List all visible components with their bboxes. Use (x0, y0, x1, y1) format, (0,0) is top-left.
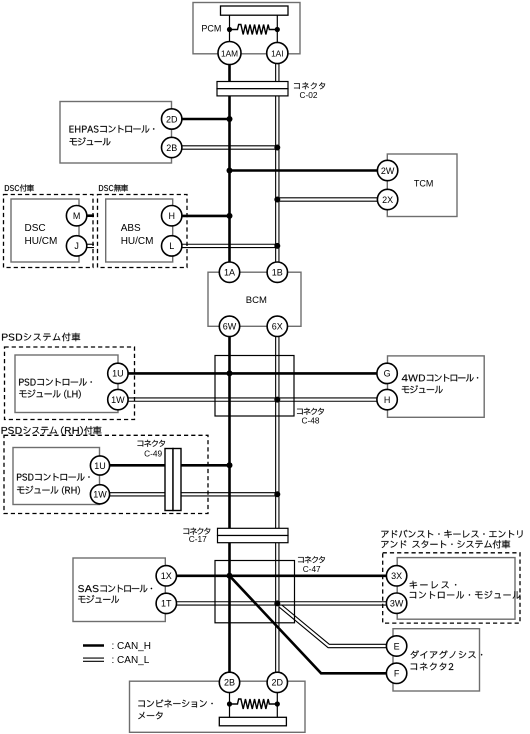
label keyless option header line2 (381, 540, 510, 549)
svg-text:1W: 1W (93, 490, 107, 500)
svg-text:6W: 6W (223, 322, 237, 332)
dashed box PSD system option (5, 347, 135, 420)
wire meter 2D stub to bar (276, 693, 278, 718)
svg-text:1A: 1A (224, 268, 235, 278)
dashed box DSC-less option (98, 195, 188, 268)
wire CAN_L bus upper segment (1AI to 1B) (inner) (276, 64, 278, 262)
wire CAN_L diagonal branch to diagnosis E (outer) (277, 603, 386, 646)
connector C-48 box (215, 356, 294, 417)
wire CAN_L branch PSD(RH) 1W (outer) (110, 492, 278, 496)
svg-text:1U: 1U (94, 461, 106, 471)
module EHPAS control module box (60, 102, 172, 164)
wire CAN_H legend sample (83, 644, 104, 647)
module TCM box (387, 154, 457, 217)
junction EHPAS 2D / CAN_H (227, 116, 233, 122)
module combination meter box (130, 681, 306, 732)
pin 6W (BCM CAN_H out) (219, 316, 239, 336)
svg-text:G: G (384, 369, 391, 379)
wire CAN_L bus lower segment (6X to 2D) (outer) (275, 337, 279, 673)
wire CAN_L branch ABS L (outer) (182, 244, 277, 248)
pin J (DSC HU/CM CAN_L) (66, 236, 86, 256)
svg-text:2X: 2X (382, 195, 393, 205)
module keyless control module box (397, 558, 515, 620)
svg-text:PCM: PCM (201, 24, 221, 34)
svg-text:BCM: BCM (246, 295, 267, 306)
pin 2D (meter CAN_L) (267, 672, 287, 692)
junction PSD(RH) 1W / CAN_L (274, 491, 280, 497)
label PSD LH line2 (19, 390, 80, 399)
wire CAN_L diagonal branch to diagnosis E (inner) (277, 603, 386, 646)
svg-text:: CAN_L: : CAN_L (112, 655, 150, 666)
wire CAN_H branch PSD(LH) 1U to 4WD G (128, 372, 377, 375)
pin H (4WD CAN_L) (377, 389, 397, 409)
module SAS control module box (73, 558, 165, 622)
wire CAN_L branch PSD(RH) 1W (inner) (110, 493, 278, 495)
label connector C-17 (katakana) (183, 528, 210, 535)
connector C-02 bar lower (217, 89, 288, 96)
pin 1AI (PCM CAN_L) (267, 42, 288, 63)
connector C-47 box (215, 561, 295, 623)
module 4WD control module box (388, 356, 485, 417)
svg-text:1T: 1T (161, 599, 172, 609)
pin 3W (keyless CAN_L) (386, 593, 406, 613)
svg-text:ABS: ABS (121, 223, 141, 234)
label PSD RH line1 (17, 473, 90, 481)
wire CAN_L branch TCM 2X (outer) (277, 197, 377, 201)
svg-text:1X: 1X (161, 571, 172, 581)
pin 1A (BCM CAN_H in) (219, 262, 239, 282)
connector C-02 bar upper (217, 82, 288, 89)
svg-text:J: J (74, 241, 79, 251)
junction PSD(RH) 1U / CAN_H (227, 462, 233, 468)
module ABS HU/CM box (106, 199, 173, 262)
junction PSD(LH) 1W / CAN_L (274, 397, 280, 403)
pin H (ABS HU/CM CAN_H) (162, 206, 182, 226)
connector C-17 bar lower (218, 536, 289, 543)
svg-text:H: H (168, 211, 175, 221)
resistor terminating (combination meter 120 ohm) (230, 699, 278, 709)
pin 2B (EHPAS CAN_L) (162, 137, 182, 157)
wire meter 2B stub to bar (229, 693, 231, 718)
pin 2X (TCM CAN_L) (377, 189, 397, 209)
junction EHPAS 2B / CAN_L (274, 145, 280, 151)
wire CAN_L branch ABS L (inner) (182, 245, 277, 247)
junction PCM resistor left (227, 27, 232, 32)
label PSD RH line2 (17, 486, 80, 495)
pin E (diagnosis CAN_L) (386, 636, 406, 656)
label combination meter line2 (138, 712, 162, 720)
junction PSD(LH) 1U / CAN_H (227, 370, 233, 376)
svg-text:L: L (169, 241, 174, 251)
wire CAN_L branch EHPAS 2B (outer) (182, 145, 277, 149)
label keyless module line1 (410, 581, 457, 589)
svg-text:C-47: C-47 (303, 564, 321, 574)
label SAS control module line1 (78, 585, 152, 593)
pin 1W (PSD RH CAN_L) (90, 485, 109, 504)
label connector C-48 (katakana) (297, 408, 324, 415)
module PSD control module (RH) box (13, 448, 100, 505)
junction TCM 2X / CAN_L (274, 197, 280, 203)
pin 1U (PSD LH CAN_H) (108, 363, 128, 383)
pin L (ABS HU/CM CAN_L) (162, 236, 182, 256)
svg-text:2D: 2D (272, 678, 284, 688)
svg-text:3W: 3W (390, 599, 404, 609)
pin 1W (PSD LH CAN_L) (108, 389, 128, 409)
module PSD control module (LH) box (15, 355, 118, 413)
wire CAN_L branch ABS J stub (outer) (87, 244, 94, 248)
svg-text:1U: 1U (112, 369, 124, 379)
wire PCM bar to resistor left stub (229, 15, 231, 41)
junction meter resistor left (227, 701, 232, 706)
label PSD system RH header (2, 426, 102, 435)
pin 2B (meter CAN_H) (219, 672, 239, 692)
PCM internal bus bar (221, 6, 289, 15)
label 4WD control module line1 (402, 374, 478, 382)
connector C-49 bar right (173, 449, 181, 511)
dashed box PSD system (RH) option (4, 435, 208, 513)
module diagnosis connector 2 box (393, 629, 480, 691)
svg-text:DSC: DSC (25, 223, 46, 234)
label connector C-47 (katakana) (298, 556, 325, 563)
svg-text:C-02: C-02 (300, 90, 318, 100)
dashed box DSC-equipped option (4, 195, 94, 268)
label 4WD control module line2 (402, 385, 443, 393)
pin 1T (SAS CAN_L) (156, 593, 176, 613)
svg-text:HU/CM: HU/CM (25, 236, 58, 247)
pin M (DSC HU/CM CAN_H) (66, 206, 86, 226)
resistor terminating (PCM 120 ohm) (230, 25, 278, 35)
junction meter resistor right (275, 701, 280, 706)
label diagnosis connector line1 (411, 650, 483, 658)
pin G (4WD CAN_H) (377, 363, 397, 383)
label EHPAS control module line1 (70, 125, 155, 133)
svg-text:6X: 6X (272, 322, 283, 332)
svg-text:1B: 1B (272, 268, 283, 278)
junction PCM resistor right (275, 27, 280, 32)
svg-text:1AI: 1AI (271, 48, 283, 58)
pin 2W (TCM CAN_H) (377, 160, 397, 180)
wire CAN_L branch EHPAS 2B (inner) (182, 146, 277, 148)
svg-text:2D: 2D (166, 114, 178, 124)
wire PCM bar to resistor right stub (276, 15, 278, 42)
svg-text:: CAN_H: : CAN_H (112, 641, 151, 652)
wire CAN_L legend sample (inner) (83, 659, 104, 661)
label PSD system header (2, 333, 80, 342)
wire CAN_H branch ABS H (182, 215, 230, 218)
label combination meter line1 (138, 700, 212, 708)
label connector C-49 (katakana) (138, 440, 166, 447)
wire CAN_L branch SAS 1T to keyless 3W (outer) (177, 601, 387, 605)
wire CAN_L branch TCM 2X (inner) (277, 198, 377, 200)
label keyless option header line1 (381, 530, 522, 538)
junction ABS L / CAN_L (274, 243, 280, 249)
dashed box advanced keyless option (383, 553, 520, 623)
label connector C-02 (katakana) (294, 82, 325, 89)
pin 1B (BCM CAN_L in) (267, 262, 287, 282)
svg-text:C-17: C-17 (189, 534, 207, 544)
wire CAN_L branch SAS 1T to keyless 3W (inner) (177, 602, 387, 604)
pin 2D (EHPAS CAN_H) (162, 109, 182, 129)
svg-text:1AM: 1AM (221, 48, 238, 58)
wire CAN_L bus upper segment (1AI to 1B) (outer) (275, 64, 279, 262)
label SAS control module line2 (78, 595, 119, 603)
wire CAN_L branch PSD(LH) 1W to 4WD H (inner) (128, 399, 377, 401)
wire CAN_H branch SAS 1X to keyless 3X (177, 574, 387, 577)
svg-text:C-48: C-48 (302, 416, 320, 426)
wire CAN_L legend sample (outer) (83, 658, 104, 662)
module BCM box (208, 272, 301, 326)
svg-text:C-49: C-49 (144, 449, 162, 459)
wire CAN_H bus lower segment (6W to 2B) (228, 337, 231, 673)
module DSC HU/CM box (11, 199, 79, 262)
wire CAN_H diagonal branch to diagnosis F (230, 576, 387, 674)
svg-text:2W: 2W (381, 166, 395, 176)
svg-text:HU/CM: HU/CM (121, 236, 154, 247)
svg-text:3X: 3X (391, 571, 402, 581)
pin 1U (PSD RH CAN_H) (90, 456, 109, 475)
connector C-49 bar left (165, 449, 173, 511)
junction SAS 1T / CAN_L (274, 600, 280, 606)
svg-text:H: H (384, 395, 391, 405)
svg-text:E: E (394, 641, 400, 651)
svg-text:1W: 1W (111, 395, 125, 405)
pin 6X (BCM CAN_L out) (267, 316, 287, 336)
wire CAN_H branch TCM 2W (230, 169, 378, 172)
wire CAN_L bus lower segment (6X to 2D) (inner) (276, 337, 278, 673)
module PCM box (193, 3, 300, 54)
connector C-17 bar upper (218, 528, 289, 535)
pin 1AM (PCM CAN_H) (218, 42, 241, 65)
label DSC-less header (99, 184, 128, 191)
label PSD LH line1 (19, 378, 92, 386)
wire CAN_H branch EHPAS 2D (182, 118, 230, 121)
pin F (diagnosis CAN_H) (386, 663, 406, 683)
junction ABS H / CAN_H (227, 213, 233, 219)
wire CAN_L branch PSD(LH) 1W to 4WD H (outer) (128, 397, 377, 401)
label EHPAS control module line2 (70, 137, 111, 145)
wire CAN_L branch ABS J stub (inner) (87, 245, 94, 247)
svg-text:2B: 2B (166, 143, 177, 153)
label keyless module line2 (410, 591, 521, 599)
wire CAN_H branch PSD(RH) 1U (110, 464, 230, 467)
label DSC-equipped header (5, 184, 34, 191)
svg-text:TCM: TCM (414, 178, 434, 188)
wire CAN_H branch DSC M stub (87, 214, 94, 217)
svg-text:2B: 2B (224, 678, 235, 688)
svg-text:F: F (394, 669, 400, 679)
pin 1X (SAS CAN_H) (156, 566, 176, 586)
junction TCM 2W / CAN_H (227, 168, 233, 174)
pin 3X (keyless CAN_H) (386, 566, 406, 586)
wire CAN_H bus upper segment (1AM to 1A) (228, 65, 231, 263)
label diagnosis connector line2 (411, 663, 454, 671)
combination meter internal bus bar (219, 717, 286, 726)
junction SAS 1X / CAN_H (227, 573, 233, 579)
svg-text:M: M (73, 211, 81, 221)
